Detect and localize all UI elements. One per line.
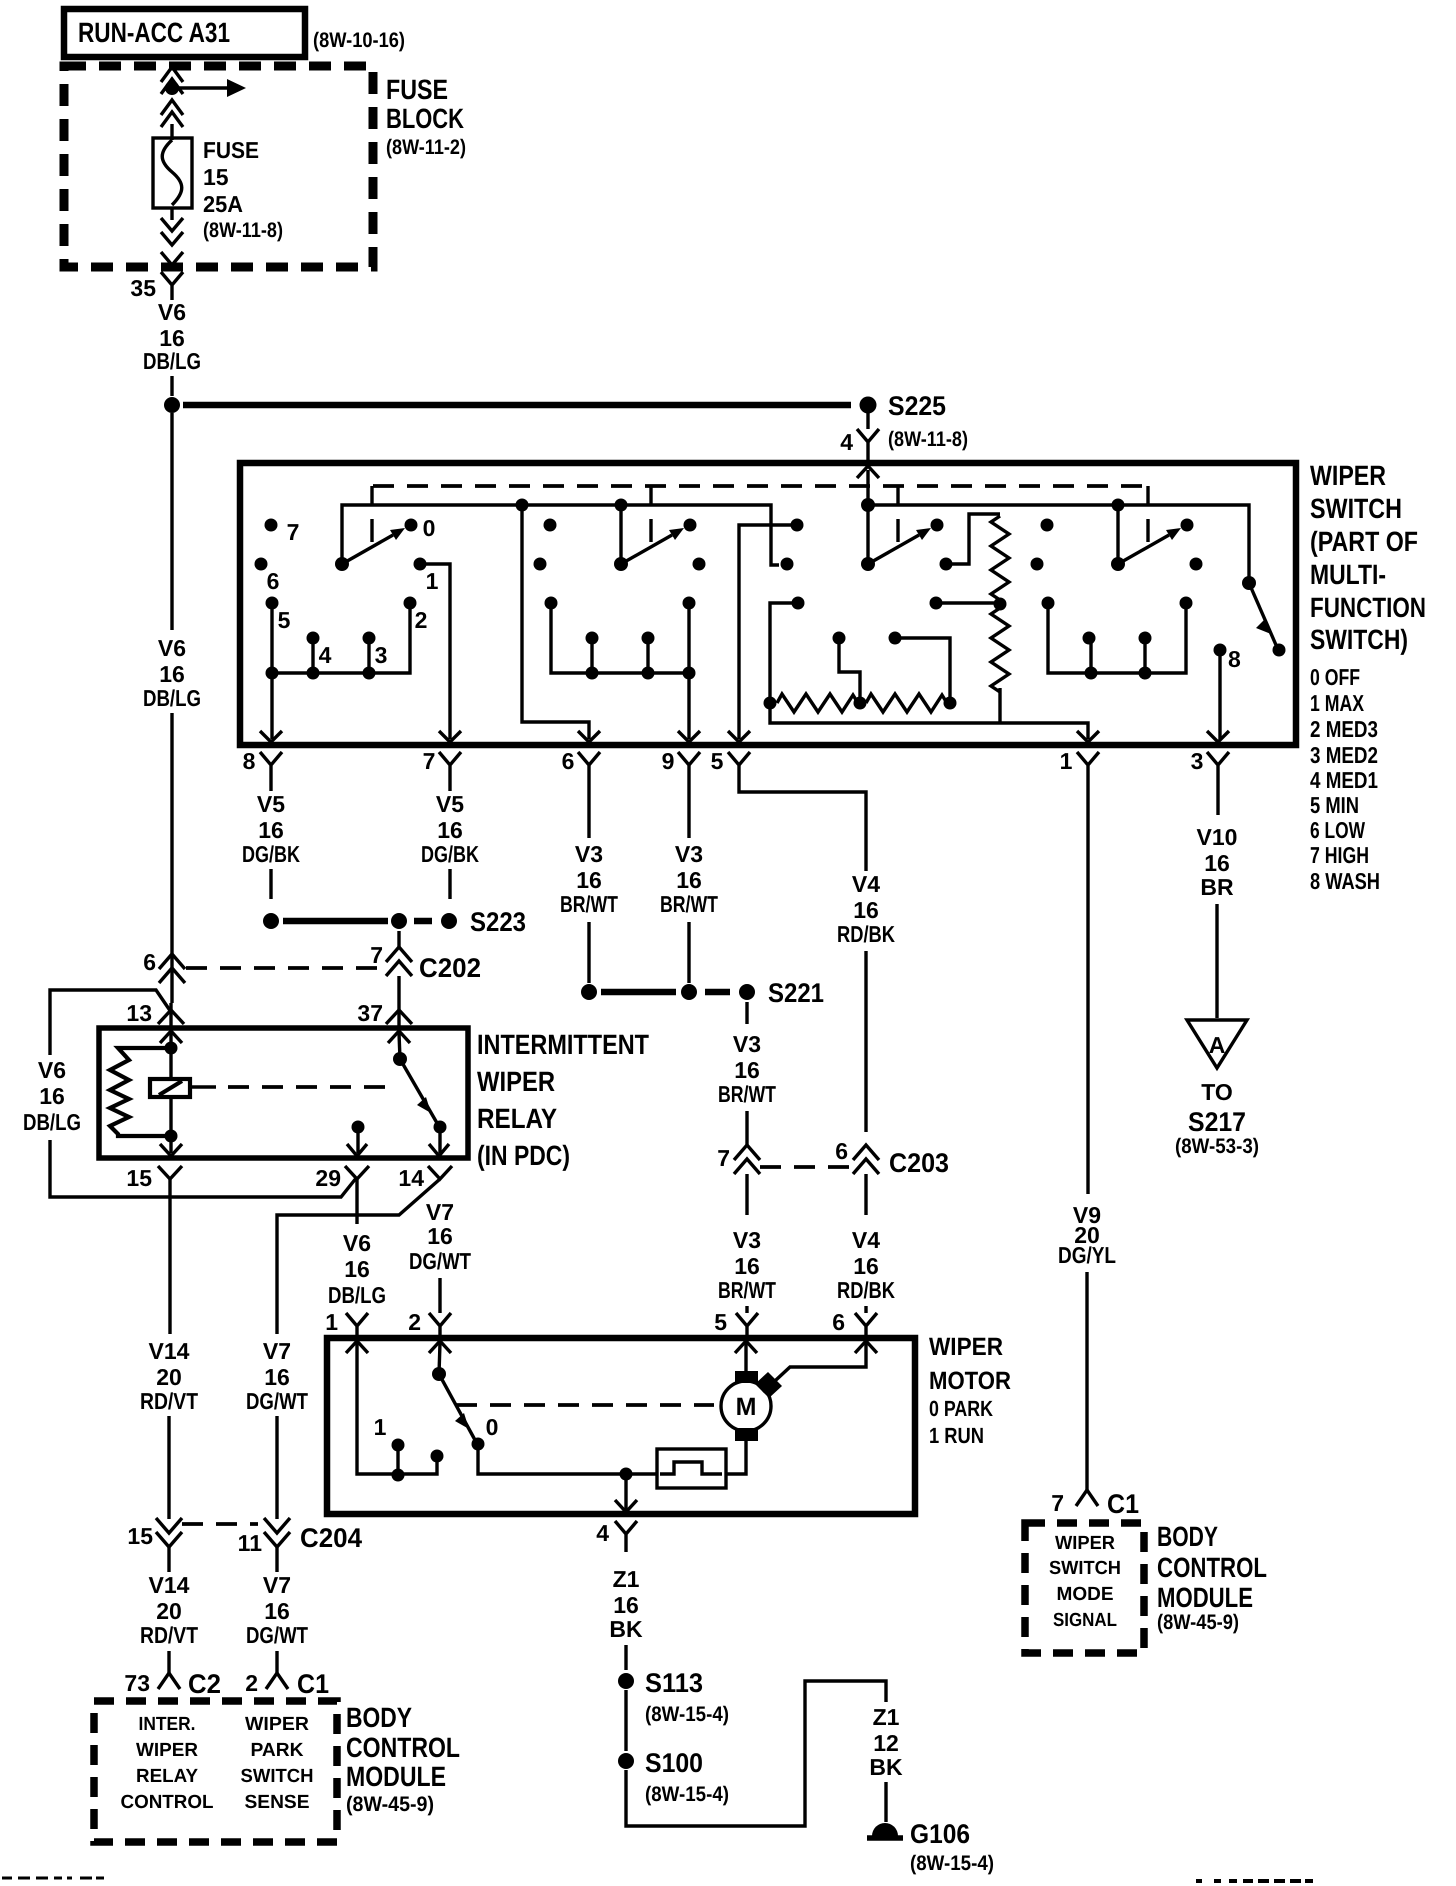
wire: wash contact to pin 3: [1218, 650, 1221, 739]
label WIPER MOTOR 0 PARK 1 RUN: [929, 1333, 1011, 1448]
entry arrow pin 13: [160, 1031, 182, 1043]
wire: [864, 1174, 867, 1215]
svg-text:(PART OF: (PART OF: [1310, 526, 1418, 557]
svg-text:1: 1: [325, 1309, 338, 1335]
svg-text:DB/LG: DB/LG: [143, 685, 201, 711]
entry arrow pin 4: [857, 466, 879, 478]
wire: [170, 376, 173, 396]
wire: S225 bus to section 4 and wash pivot: [868, 505, 1249, 583]
svg-text:16: 16: [853, 1253, 879, 1279]
svg-text:16: 16: [427, 1223, 453, 1249]
svg-text:1 RUN: 1 RUN: [929, 1423, 984, 1448]
svg-text:V7: V7: [263, 1338, 291, 1364]
svg-text:2 MED3: 2 MED3: [1310, 716, 1378, 742]
svg-text:INTER.: INTER.: [139, 1714, 196, 1735]
node: coil top: [165, 1042, 178, 1055]
svg-text:MODULE: MODULE: [1157, 1582, 1253, 1613]
svg-text:16: 16: [344, 1256, 370, 1282]
resistor: vertical upper: [991, 516, 1009, 600]
wire: [50, 1140, 357, 1197]
contact 5 section 4: [1042, 597, 1055, 610]
pin 1 wiper switch: [1060, 731, 1099, 783]
wire label V9 20 DG/YL: [1058, 1202, 1116, 1268]
wire: [356, 1127, 359, 1153]
connector X pin 14: [398, 1165, 452, 1191]
svg-text:BODY: BODY: [346, 1702, 412, 1733]
svg-text:RUN-ACC A31: RUN-ACC A31: [78, 17, 230, 48]
connector C203 cavity 6: [835, 1138, 949, 1178]
wire label V10 16 BR: [1197, 824, 1238, 900]
svg-text:DG/WT: DG/WT: [246, 1622, 308, 1648]
contact 4 section 1: [307, 632, 320, 645]
pin 9 wiper switch: [662, 731, 700, 783]
wire: [864, 951, 867, 1132]
connector C202 boundary (dashed): [186, 966, 378, 970]
park rail open contact: [431, 1450, 444, 1463]
svg-text:(8W-15-4): (8W-15-4): [645, 1703, 729, 1726]
svg-text:16: 16: [853, 897, 879, 923]
resistor: vertical lower: [991, 608, 1009, 692]
label INTERMITTENT WIPER RELAY (IN PDC): [477, 1029, 649, 1171]
wire label V3 16 BR/WT: [660, 841, 718, 917]
relay contact to pin 29: [352, 1121, 365, 1134]
svg-text:S223: S223: [470, 907, 526, 937]
pin 7 wiper switch: [423, 731, 461, 783]
contact 7 section 3: [791, 519, 804, 532]
resistor: delay pot segment A: [777, 694, 858, 712]
contact 1 section 4: [1190, 558, 1203, 571]
node: S225 bus junction: [861, 498, 875, 512]
svg-text:8: 8: [1228, 646, 1241, 672]
svg-text:BR/WT: BR/WT: [660, 891, 718, 917]
svg-text:FUSE: FUSE: [203, 137, 259, 163]
svg-text:S113: S113: [645, 1668, 703, 1698]
svg-text:DB/LG: DB/LG: [328, 1282, 386, 1308]
relay coil K1: [150, 1048, 190, 1136]
svg-text:35: 35: [130, 275, 156, 301]
svg-text:SENSE: SENSE: [245, 1792, 310, 1813]
connector C202 cavity 7: [370, 942, 481, 983]
wire: S1 contacts 5-4-3 rail to pin 8: [272, 603, 410, 739]
contact 2 section 3: [930, 597, 943, 610]
svg-text:WIPER: WIPER: [929, 1333, 1003, 1361]
splice S100: [618, 1748, 729, 1806]
pin 6 wiper motor: [832, 1309, 877, 1341]
pin 4 wiper motor: [596, 1520, 637, 1552]
wire label Z1 16 BK: [609, 1566, 643, 1642]
wire: [169, 1003, 172, 1030]
node: rail junctions: [1085, 667, 1098, 680]
svg-text:V3: V3: [675, 841, 703, 867]
svg-text:6: 6: [832, 1309, 845, 1335]
svg-text:TO: TO: [1201, 1079, 1233, 1105]
svg-text:9: 9: [662, 748, 675, 774]
svg-text:1: 1: [426, 568, 439, 594]
svg-text:3: 3: [1191, 748, 1204, 774]
node: bus junction to pin6: [516, 499, 529, 512]
wire: contact 0 to sensor: [478, 1444, 657, 1474]
wire: V6 feed down left side: [170, 413, 173, 630]
section 1 wiper blade: [342, 528, 405, 564]
svg-text:16: 16: [39, 1083, 65, 1109]
svg-text:7 HIGH: 7 HIGH: [1310, 842, 1369, 868]
wire label V3 16 BR/WT: [718, 1031, 776, 1107]
wire: contact 4 tap to pot mid: [839, 638, 860, 697]
pin 8 wiper switch: [243, 731, 282, 783]
wire: resistor bottom rail to pin 1: [770, 688, 1088, 739]
svg-text:7: 7: [370, 942, 383, 968]
contact 1 section 1: [414, 558, 427, 571]
node: rail junctions: [586, 667, 599, 680]
park contact 1: [392, 1439, 405, 1482]
splice S223: [263, 907, 526, 937]
wire label V7 16 DG/WT: [409, 1199, 471, 1274]
wire label V3 16 BR/WT: [560, 841, 618, 917]
wire label V4 16 RD/BK: [837, 871, 895, 947]
wire label V6 16 DB/LG: [328, 1230, 386, 1308]
wire: [438, 1278, 441, 1313]
contact 2 section 2: [683, 597, 696, 610]
park contact 0: [472, 1438, 485, 1451]
wash switch blade: [1249, 583, 1276, 645]
contact 3 section 2: [642, 632, 655, 645]
svg-text:(8W-45-9): (8W-45-9): [346, 1793, 434, 1816]
svg-text:SWITCH: SWITCH: [241, 1766, 314, 1787]
contact 0 section 2: [684, 519, 697, 532]
scan artifact bottom right: [1196, 1879, 1313, 1883]
svg-text:BODY: BODY: [1157, 1521, 1218, 1552]
svg-text:MULTI-: MULTI-: [1310, 559, 1386, 590]
contact 0 section 1: [405, 519, 418, 532]
svg-text:16: 16: [734, 1057, 760, 1083]
svg-text:4: 4: [596, 1520, 609, 1546]
svg-text:8: 8: [243, 748, 256, 774]
wire: [275, 1651, 278, 1673]
svg-text:RD/BK: RD/BK: [837, 1277, 895, 1303]
connector C202 cavity 6: [143, 949, 185, 983]
svg-text:15: 15: [126, 1165, 152, 1191]
wire: [169, 1033, 172, 1048]
svg-text:4 MED1: 4 MED1: [1310, 767, 1378, 793]
park linkage (dashed): [456, 1403, 714, 1407]
node: bus junction S2 wiper: [615, 499, 628, 512]
svg-text:CONTROL: CONTROL: [346, 1732, 460, 1763]
park switch pivot: [432, 1367, 446, 1381]
relay switch pivot: [393, 1052, 407, 1066]
svg-text:5: 5: [714, 1309, 727, 1335]
wire label V6 16 DB/LG: [143, 635, 201, 711]
svg-text:FUSE: FUSE: [386, 74, 448, 105]
wire: S2 contacts 5-4-3-2 rail to pin 9: [551, 603, 689, 739]
svg-text:0: 0: [486, 1414, 499, 1440]
relay actuation (dashed): [190, 1085, 216, 1088]
fuse block enclosure (dashed): [64, 66, 373, 267]
contact 5 section 2: [545, 597, 558, 610]
mechanical linkage tick: [370, 486, 373, 542]
svg-text:WIPER: WIPER: [245, 1714, 309, 1735]
wire: [397, 931, 400, 947]
svg-text:SWITCH: SWITCH: [1049, 1558, 1121, 1579]
wire: S4 contacts 5-4-3-2 rail: [1048, 603, 1186, 673]
svg-text:16: 16: [258, 817, 284, 843]
label TO S217 (8W-53-3): [1175, 1079, 1259, 1158]
svg-text:Z1: Z1: [613, 1566, 640, 1592]
connector fork pin 35: [161, 272, 183, 300]
contact 1 section 3: [940, 558, 953, 571]
svg-text:1: 1: [374, 1414, 387, 1440]
wire: [1085, 1272, 1088, 1490]
wire: [170, 713, 173, 956]
svg-text:WIPER: WIPER: [477, 1066, 555, 1097]
svg-text:V3: V3: [575, 841, 603, 867]
svg-text:(8W-45-9): (8W-45-9): [1157, 1611, 1239, 1634]
wire: [169, 1136, 172, 1153]
node: pot mid tap: [854, 697, 867, 710]
svg-text:7: 7: [717, 1145, 730, 1171]
svg-text:S100: S100: [645, 1748, 703, 1778]
svg-text:5 MIN: 5 MIN: [1310, 792, 1359, 818]
svg-text:6: 6: [143, 949, 156, 975]
node: vertical resistor tap: [994, 598, 1007, 611]
wire: [745, 1002, 748, 1024]
svg-text:V7: V7: [426, 1199, 454, 1225]
svg-text:V10: V10: [1197, 824, 1238, 850]
body control module box (dashed): [94, 1701, 337, 1842]
svg-text:16: 16: [1204, 850, 1230, 876]
wire: [745, 1174, 748, 1215]
svg-text:2: 2: [415, 607, 428, 633]
svg-text:DG/YL: DG/YL: [1058, 1242, 1116, 1268]
svg-text:7: 7: [1051, 1490, 1064, 1516]
node: feed junction: [165, 81, 179, 95]
svg-text:WIPER: WIPER: [1055, 1533, 1115, 1554]
svg-text:RELAY: RELAY: [136, 1766, 198, 1787]
svg-text:PARK: PARK: [251, 1740, 304, 1761]
wire: [624, 1690, 627, 1751]
svg-text:16: 16: [437, 817, 463, 843]
svg-text:DG/BK: DG/BK: [421, 841, 479, 867]
svg-text:WIPER: WIPER: [136, 1740, 198, 1761]
wash blade rest contact: [1273, 644, 1286, 657]
svg-text:15: 15: [127, 1523, 153, 1549]
park switch blade: [439, 1374, 475, 1440]
svg-text:SWITCH: SWITCH: [1310, 493, 1402, 524]
wire: [624, 1474, 627, 1510]
wire: [168, 1179, 171, 1334]
svg-text:M: M: [736, 1393, 757, 1421]
svg-text:11: 11: [238, 1530, 263, 1556]
svg-text:DG/WT: DG/WT: [409, 1248, 471, 1274]
svg-text:6: 6: [267, 568, 280, 594]
svg-text:BR/WT: BR/WT: [560, 891, 618, 917]
wire: [399, 1033, 400, 1059]
BCM wiper switch mode signal box (dashed): [1025, 1523, 1144, 1653]
svg-text:BK: BK: [609, 1616, 643, 1642]
switch section 4 wiper pivot: [1111, 557, 1125, 571]
off-page connector A: [1187, 1020, 1247, 1068]
wire: bypass branch pin13 to pin 29: [50, 990, 171, 1055]
mechanical linkage (dashed): [373, 484, 1145, 488]
svg-text:CONTROL: CONTROL: [1157, 1552, 1267, 1583]
svg-text:29: 29: [315, 1165, 341, 1191]
exit arrow pin 4: [615, 1500, 637, 1512]
wire label V6 16 DB/LG: [143, 299, 201, 374]
mechanical linkage tick: [649, 486, 652, 542]
svg-text:V6: V6: [158, 299, 186, 325]
svg-text:BR/WT: BR/WT: [718, 1081, 776, 1107]
wire: [726, 1441, 746, 1474]
legend switch positions: [1310, 664, 1380, 894]
splice S225: [164, 391, 968, 451]
pin 2 wiper motor: [408, 1309, 451, 1341]
wire: [397, 976, 400, 1030]
label BODY CONTROL MODULE (8W-45-9) right: [1157, 1521, 1267, 1634]
svg-text:S217: S217: [1188, 1107, 1246, 1137]
wire label Z1 12 BK: [869, 1704, 903, 1780]
contact 3 section 3: [889, 632, 902, 645]
wire: [1216, 783, 1219, 815]
section 2 wiper blade: [621, 528, 684, 564]
wire label V6 16 DB/LG: [23, 1057, 81, 1135]
wire: [448, 869, 451, 899]
exit arrow pin 15: [160, 1144, 182, 1156]
svg-text:4: 4: [319, 642, 332, 668]
connector X pin 29: [315, 1165, 369, 1191]
wire: [884, 1782, 887, 1822]
svg-text:MODULE: MODULE: [346, 1761, 446, 1792]
svg-text:V6: V6: [158, 635, 186, 661]
svg-text:12: 12: [873, 1730, 899, 1756]
svg-text:RD/BK: RD/BK: [837, 921, 895, 947]
wire: bus to S4 wiper: [1116, 505, 1119, 564]
wire: S3 contact 7 to pin 5: [739, 525, 797, 739]
svg-text:(8W-11-2): (8W-11-2): [386, 136, 466, 159]
label WIPER SWITCH (PART OF MULTI-FUNCTION SWITCH): [1310, 460, 1426, 655]
svg-text:6: 6: [835, 1138, 848, 1164]
wire: [744, 1343, 747, 1373]
connector C204 cavity 11: [238, 1518, 362, 1556]
svg-text:0 OFF: 0 OFF: [1310, 664, 1360, 690]
wire: [275, 1416, 278, 1519]
connector C1 pin 7: [1051, 1489, 1139, 1519]
svg-text:73: 73: [124, 1670, 150, 1696]
wire label V14 20 RD/VT: [140, 1572, 198, 1648]
svg-text:V6: V6: [38, 1057, 66, 1083]
connector chevrons at fuse output: [161, 218, 183, 265]
connector C203 cavity 7: [717, 1145, 760, 1174]
svg-text:1 MAX: 1 MAX: [1310, 690, 1365, 716]
svg-text:RELAY: RELAY: [477, 1103, 557, 1134]
svg-text:25A: 25A: [203, 191, 243, 217]
wire label V7 16 DG/WT: [246, 1572, 308, 1648]
entry arrow pin 1: [346, 1341, 368, 1353]
contact 6 section 2: [534, 558, 547, 571]
wire: [745, 1306, 748, 1313]
node: pot left end: [764, 697, 777, 710]
wire: S1 contact 1 to pin 7: [420, 564, 450, 739]
contact 6 section 4: [1031, 558, 1044, 571]
wire: [355, 1179, 358, 1224]
svg-text:16: 16: [159, 661, 185, 687]
wire: [170, 956, 173, 1003]
exit arrow pin 14: [429, 1144, 449, 1156]
svg-text:Z1: Z1: [873, 1704, 900, 1730]
contact 1 section 2: [693, 558, 706, 571]
fuse 15 25A: [153, 138, 192, 208]
node: pin 4 junction: [620, 1468, 633, 1481]
svg-text:V5: V5: [257, 791, 285, 817]
wire: [438, 1127, 441, 1153]
svg-text:13: 13: [126, 1000, 152, 1026]
mechanical linkage tick: [896, 486, 899, 542]
svg-text:6: 6: [562, 748, 575, 774]
connector X pin 37: [357, 1000, 412, 1026]
svg-text:(8W-15-4): (8W-15-4): [645, 1783, 729, 1806]
label BODY CONTROL MODULE (8W-45-9) left: [346, 1702, 460, 1816]
exit arrow pin 29: [347, 1144, 367, 1156]
contact 7 section 1: [265, 519, 278, 532]
svg-text:6 LOW: 6 LOW: [1310, 817, 1365, 843]
contact 4 section 2: [586, 632, 599, 645]
relay contact to pin 14: [434, 1121, 447, 1134]
connector chevrons at fuse feed top: [161, 67, 183, 94]
contact 4 section 4: [1083, 632, 1096, 645]
svg-text:3 MED2: 3 MED2: [1310, 742, 1378, 768]
svg-text:2: 2: [245, 1670, 258, 1696]
mechanical linkage tick: [1146, 486, 1149, 542]
svg-text:16: 16: [264, 1598, 290, 1624]
contact 0 section 4: [1181, 519, 1194, 532]
svg-text:S225: S225: [888, 391, 946, 421]
power feed box RUN-ACC A31: [64, 9, 305, 57]
svg-text:V4: V4: [852, 871, 880, 897]
entry arrow pin 2: [429, 1341, 451, 1353]
connector C203 boundary (dashed): [760, 1165, 852, 1169]
wire label V7 16 DG/WT: [246, 1338, 308, 1414]
wire: contact 3 tap to pot right: [895, 638, 950, 697]
wire: pin 6 to motor brush: [763, 1343, 866, 1392]
wire label V3 16 BR/WT: [718, 1227, 776, 1303]
wire: pin 14 branch to park sense: [277, 1179, 440, 1334]
wire: S3 contact 5 down to potentiometer: [770, 603, 798, 700]
intermittent wiper relay box: [99, 1028, 468, 1158]
connector chevrons below junction: [161, 100, 183, 127]
arrow to other circuits: [179, 79, 246, 97]
pin 3 wiper switch: [1191, 731, 1229, 783]
wire: Z1 run to ground: [626, 1681, 886, 1826]
svg-text:RD/VT: RD/VT: [140, 1388, 198, 1414]
svg-text:V6: V6: [343, 1230, 371, 1256]
svg-text:A: A: [1209, 1032, 1226, 1058]
wire: [745, 1111, 748, 1147]
svg-text:C2: C2: [188, 1669, 221, 1699]
svg-text:16: 16: [676, 867, 702, 893]
svg-text:C204: C204: [300, 1523, 362, 1553]
wire: S225 into switch: [866, 470, 869, 564]
svg-text:37: 37: [357, 1000, 383, 1026]
label INTER. WIPER RELAY CONTROL: [121, 1714, 214, 1813]
wire: [687, 783, 690, 838]
motor M1: [721, 1371, 782, 1441]
wire label V4 16 RD/BK: [837, 1227, 895, 1303]
node: bus junction S4 wiper: [1112, 499, 1125, 512]
svg-text:14: 14: [398, 1165, 424, 1191]
wire: [587, 783, 590, 838]
svg-text:5: 5: [711, 748, 724, 774]
wiper motor box: [327, 1338, 915, 1514]
wire: pin 5 to V4 run: [739, 783, 866, 871]
wire: contact 1 to vertical resistor top: [946, 514, 1000, 564]
